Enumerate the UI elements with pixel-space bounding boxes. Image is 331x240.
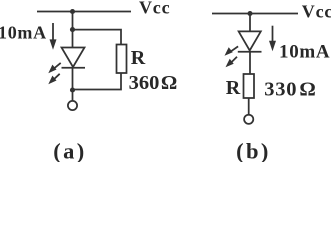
svg-text:Vcc: Vcc xyxy=(139,0,170,18)
resistor R body (b) xyxy=(244,74,255,98)
svg-text:10mA: 10mA xyxy=(279,41,330,62)
resistor R body (a) xyxy=(117,45,127,74)
svg-text:(b): (b) xyxy=(236,139,271,163)
LED D (b) xyxy=(225,31,262,67)
wire Vcc rail (b) xyxy=(212,13,298,15)
node junction rail (a) xyxy=(70,9,75,14)
terminal circle (a) xyxy=(68,101,77,110)
wire resistor bottom to node (a) xyxy=(73,73,122,90)
svg-text:(a): (a) xyxy=(53,139,86,163)
terminal circle (b) xyxy=(244,115,253,124)
svg-text:R: R xyxy=(131,47,146,69)
node junction rail (b) xyxy=(247,11,252,16)
wire cathode to resistor top (b) xyxy=(249,52,251,74)
current arrow 10mA (a) xyxy=(50,23,57,50)
wire LED cathode to terminal (a) xyxy=(72,68,74,101)
svg-text:360Ω: 360Ω xyxy=(129,72,178,94)
wire Vcc rail (a) xyxy=(37,11,131,13)
wire resistor bottom to terminal (b) xyxy=(248,98,250,114)
svg-text:R: R xyxy=(226,77,241,99)
svg-text:10mA: 10mA xyxy=(0,22,47,42)
current arrow 10mA (b) xyxy=(269,26,276,52)
wire rail to LED anode (a) xyxy=(72,12,74,49)
svg-text:330Ω: 330Ω xyxy=(264,78,316,100)
wire branch to resistor top (a) xyxy=(73,30,122,45)
node junction bottom (a) xyxy=(70,87,75,92)
node junction branch (a) xyxy=(70,27,75,32)
wire rail to LED anode (b) xyxy=(249,14,251,33)
LED D (a) xyxy=(48,48,85,85)
svg-text:Vcc: Vcc xyxy=(302,2,331,22)
